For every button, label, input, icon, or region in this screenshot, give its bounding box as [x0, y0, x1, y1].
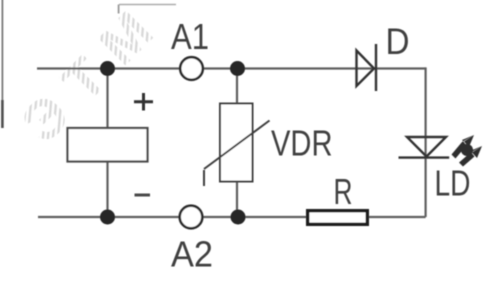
terminal A1 — [180, 57, 203, 80]
svg-text:D: D — [386, 21, 410, 62]
wire right vertical (diode to LED to bottom corner) — [425, 67, 427, 217]
svg-text:R: R — [334, 171, 353, 212]
varistor VDR — [204, 104, 270, 187]
LED light emission arrows — [452, 135, 483, 167]
relay coil (rectangle) — [68, 128, 148, 162]
wire VDR top lead — [236, 69, 238, 105]
junction bottom-left node — [100, 210, 115, 225]
svg-text:A1: A1 — [171, 16, 209, 57]
wire VDR bottom lead — [236, 181, 238, 217]
svg-text:LD: LD — [435, 163, 471, 204]
svg-text:A2: A2 — [171, 234, 213, 275]
junction top-left node — [100, 61, 115, 76]
polarity mark − — [135, 194, 151, 197]
junction top VDR node — [230, 61, 245, 76]
terminal A2 — [180, 206, 203, 229]
resistor R — [308, 211, 368, 225]
polarity mark + — [134, 93, 153, 111]
wire bottom rail — [38, 216, 426, 218]
diode D — [357, 44, 377, 91]
svg-text:VDR: VDR — [271, 123, 333, 164]
wire relay coil top lead — [106, 69, 108, 130]
junction bottom VDR node — [231, 210, 246, 225]
wire relay coil bottom lead — [106, 161, 108, 217]
wire top rail — [37, 67, 426, 69]
LED LD — [399, 137, 450, 158]
